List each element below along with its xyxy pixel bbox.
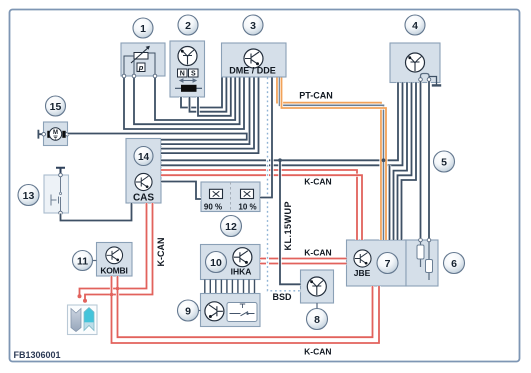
box component 2 (crankshaft sensor) (170, 41, 205, 97)
svg-text:4: 4 (412, 20, 418, 32)
wire h2 CAS to component 4 (161, 83, 403, 166)
svg-text:1: 1 (140, 23, 146, 35)
svg-text:10: 10 (210, 257, 222, 269)
svg-text:9: 9 (185, 306, 191, 318)
svg-text:12: 12 (225, 221, 237, 233)
wire K-CAN red IHKA to JBE line 1 (260, 257, 347, 260)
box component 9 (flap actuator) (201, 294, 261, 327)
wire component 4 terminal 2 to fuse box (427, 80, 430, 239)
switch symbol in component 13 (51, 176, 62, 212)
motor icon in component 15 (47, 128, 65, 140)
terminals of component 15 (42, 132, 69, 136)
svg-text:5: 5 (441, 157, 447, 169)
svg-text:KOMBI: KOMBI (100, 266, 127, 276)
ball number 3 (243, 15, 263, 35)
box component 4 (module top right) (390, 43, 440, 83)
junction dot KOMBI right on red net (116, 287, 120, 291)
terminals on component 4 (419, 78, 431, 82)
svg-text:2: 2 (185, 20, 191, 32)
ball number 7 (377, 253, 398, 274)
svg-text:K-CAN: K-CAN (304, 248, 331, 258)
ball number 9 (178, 300, 199, 321)
junction dot KL15WUP on h1 (278, 158, 282, 162)
wire sensor 1 pin3 to DME (155, 77, 235, 121)
wire DME to CAS line 2 (161, 78, 250, 145)
svg-text:FB1306001: FB1306001 (14, 350, 61, 360)
antenna on component 13 (56, 168, 65, 175)
control unit icon component 4 (406, 53, 425, 72)
lamp 10% (241, 189, 254, 198)
wire K-CAN red CAS right down to flags (85, 203, 153, 300)
control unit icon component 8 (307, 277, 326, 296)
wire component 4 w3 to JBE (394, 83, 408, 241)
ball number 8 (307, 309, 328, 330)
wire DME to CAS line 3 (161, 78, 254, 149)
box component 15 (motor antenna) (44, 122, 68, 146)
box component 1 (pedal sensor) (121, 43, 165, 76)
stem ball 8 (316, 303, 318, 309)
ground symbol (432, 84, 441, 86)
wire component 4 w5 to JBE (402, 83, 417, 241)
svg-text:DME / DDE: DME / DDE (229, 66, 276, 76)
svg-text:M: M (53, 130, 58, 136)
svg-text:K-CAN: K-CAN (304, 346, 331, 356)
svg-text:11: 11 (77, 256, 88, 268)
internal wiring of component 1 (124, 53, 155, 76)
box flag indicator icon (68, 305, 98, 335)
svg-text:IHKA: IHKA (231, 267, 252, 277)
pressure sensor p in component 1 (137, 63, 145, 72)
box component 13 (switch) (44, 175, 69, 213)
stem ball 11 (93, 260, 97, 262)
ball number 6 (444, 253, 465, 274)
box component 8 (aux module) (301, 270, 334, 303)
wire drop h2 to JBE (388, 165, 391, 240)
wire PT-CAN middle slate (280, 78, 384, 241)
ground wire from component 4 (429, 77, 437, 85)
svg-text:JBE: JBE (354, 268, 371, 278)
box 90%/10% indicator lamps (component 12) (201, 182, 260, 212)
wire sensor 1 pin2 to DME (134, 77, 240, 125)
double arrow (180, 79, 196, 82)
svg-text:15: 15 (50, 101, 62, 113)
ball number 11 (73, 251, 93, 271)
box JBE (component 7) (347, 240, 407, 286)
wire K-CAN red CAS to JBE line 1 (161, 170, 357, 240)
fuse 2 in component 6 (426, 240, 433, 280)
wire PT-CAN orange 2 (282, 78, 387, 241)
left flag pennant (71, 309, 81, 332)
dashed divider in lamp box (230, 182, 232, 212)
hall sensor icon in component 2 (178, 47, 197, 66)
jumper loop on component 4 (421, 74, 430, 80)
lamp 90% (210, 189, 223, 198)
control unit icon KOMBI (106, 247, 123, 264)
wire K-CAN red KOMBI left to JBE bottom (112, 276, 380, 343)
svg-text:K-CAN: K-CAN (304, 177, 331, 187)
magnet poles N S (178, 69, 199, 78)
svg-text:CAS: CAS (133, 193, 154, 204)
control unit icon component 9 (205, 302, 224, 321)
wire component 13 to CAS (61, 203, 132, 221)
box KOMBI (component 11) (97, 243, 133, 277)
wire sensor 1 pin1 to DME (124, 77, 244, 130)
svg-text:14: 14 (138, 152, 150, 163)
box IHKA (component 10) (201, 245, 261, 280)
wire K-CAN red CAS to JBE line 2 (161, 175, 362, 240)
svg-text:6: 6 (451, 258, 457, 270)
ball number 4 (405, 15, 425, 35)
right flag pennant (84, 308, 94, 331)
ball number 2 (178, 15, 198, 35)
junction dot KOMBI left on red net (110, 293, 114, 297)
flap symbol in component 9 (227, 303, 257, 322)
ball number 5 (434, 151, 455, 172)
svg-text:KL.15WUP: KL.15WUP (283, 201, 293, 251)
wire CAS to 90 percent lamp (161, 182, 201, 200)
svg-text:10 %: 10 % (238, 203, 256, 212)
wire component 15 to CAS (68, 134, 247, 140)
wire sensor 2 pin1 to DME (181, 78, 222, 108)
ball number 15 (46, 96, 66, 116)
box CAS (component 14) (126, 139, 161, 204)
wire DME to CAS line 4 (161, 78, 259, 154)
left terminal bar of component 15 (38, 130, 43, 139)
control unit icon CAS (135, 173, 152, 190)
fuse 1 in component 6 (417, 240, 424, 267)
svg-text:PT-CAN: PT-CAN (299, 91, 333, 101)
control unit icon IHKA (233, 248, 252, 267)
terminals of component 13 (59, 173, 63, 215)
svg-text:BSD: BSD (272, 292, 292, 302)
svg-text:3: 3 (250, 20, 256, 32)
ball number 14 (134, 147, 153, 166)
svg-text:K-CAN: K-CAN (156, 238, 166, 267)
ball number 1 (133, 18, 153, 38)
wire component 4 terminal 1 to fuse box (419, 80, 422, 239)
control unit icon DME (244, 49, 263, 68)
svg-text:S: S (191, 71, 196, 78)
svg-text:90 %: 90 % (204, 203, 222, 212)
terminals on component 6 (419, 238, 431, 242)
box component 3 DME / DDE (222, 43, 287, 77)
ball number 13 (18, 185, 39, 206)
wire component 4 w4 to JBE (398, 83, 412, 241)
end dot red to left flag (78, 294, 82, 298)
wire KL15WUP to component 8 (280, 160, 301, 284)
terminals on component 1 (122, 74, 157, 78)
svg-text:p: p (138, 63, 144, 72)
box component 6 (fuse carrier) (406, 240, 438, 286)
junction dot PT-CAN slate on h1 (382, 158, 386, 162)
control unit icon JBE (354, 250, 371, 267)
wire DME to 10 percent lamp (260, 78, 272, 198)
svg-text:N: N (180, 71, 185, 78)
wire K-CAN red IHKA to JBE line 2 (260, 262, 347, 265)
wire K-CAN red KOMBI right to JBE bottom (118, 276, 373, 337)
variable resistor in component 1 (131, 46, 150, 63)
stem ball 9 (198, 310, 201, 312)
ball number 12 (221, 216, 242, 237)
wire BSD dashed DME to component 8 (268, 78, 301, 291)
mechanical link comb between IHKA and component 9 (205, 280, 255, 294)
wire sensor 2 pin3 to DME (198, 78, 231, 116)
magnet bar (175, 85, 202, 92)
wire PT-CAN orange 1 (277, 78, 381, 241)
svg-text:7: 7 (385, 258, 391, 270)
wire K-CAN red CAS left down to flags (80, 203, 147, 296)
svg-text:13: 13 (23, 190, 35, 202)
svg-text:8: 8 (314, 314, 320, 326)
wire h1 CAS to component 4 (161, 83, 398, 161)
ball number 10 (206, 252, 227, 273)
end dot red to right flag (83, 299, 87, 303)
wire sensor 2 pin2 to DME (190, 78, 227, 112)
